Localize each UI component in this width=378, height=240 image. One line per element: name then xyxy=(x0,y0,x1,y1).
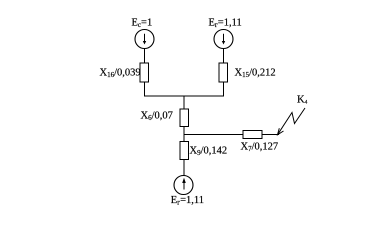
wire junction to X7 branch xyxy=(184,134,243,136)
wire X6 to junction and X9 xyxy=(183,127,185,142)
wire X7 to fault point xyxy=(262,134,279,136)
reactance X9 xyxy=(180,142,189,160)
svg-text:X16/0,039: X16/0,039 xyxy=(100,68,141,80)
svg-text:Eг=1,11: Eг=1,11 xyxy=(171,195,204,207)
reactance X7 xyxy=(243,131,262,139)
wire X9 to bottom source xyxy=(183,160,185,176)
voltage source Eg top right (circle with down arrow) xyxy=(214,30,233,49)
voltage source Ec (circle with down arrow) xyxy=(135,30,154,49)
wire source Ec to X16 xyxy=(144,49,146,63)
voltage source Eg bottom (circle with up arrow) xyxy=(174,176,193,195)
svg-text:X9/0,142: X9/0,142 xyxy=(190,146,228,158)
fault lightning arrow K4 xyxy=(278,108,306,135)
svg-text:Eг=1,11: Eг=1,11 xyxy=(209,18,242,30)
wire bus to X6 xyxy=(183,96,185,109)
reactance X15 xyxy=(219,63,228,82)
wire X15 down to bus xyxy=(223,82,225,97)
wire X16 down to bus xyxy=(144,82,146,97)
svg-text:K4: K4 xyxy=(297,95,308,106)
wire source Eg to X15 xyxy=(223,49,225,63)
wire bus horizontal xyxy=(144,95,224,97)
reactance X6 xyxy=(180,109,189,127)
reactance X16 xyxy=(140,63,149,82)
svg-text:Eс=1: Eс=1 xyxy=(132,18,153,30)
svg-text:X6/0,07: X6/0,07 xyxy=(141,111,173,123)
svg-text:X15/0,212: X15/0,212 xyxy=(235,68,276,80)
svg-text:X7/0,127: X7/0,127 xyxy=(241,142,279,154)
